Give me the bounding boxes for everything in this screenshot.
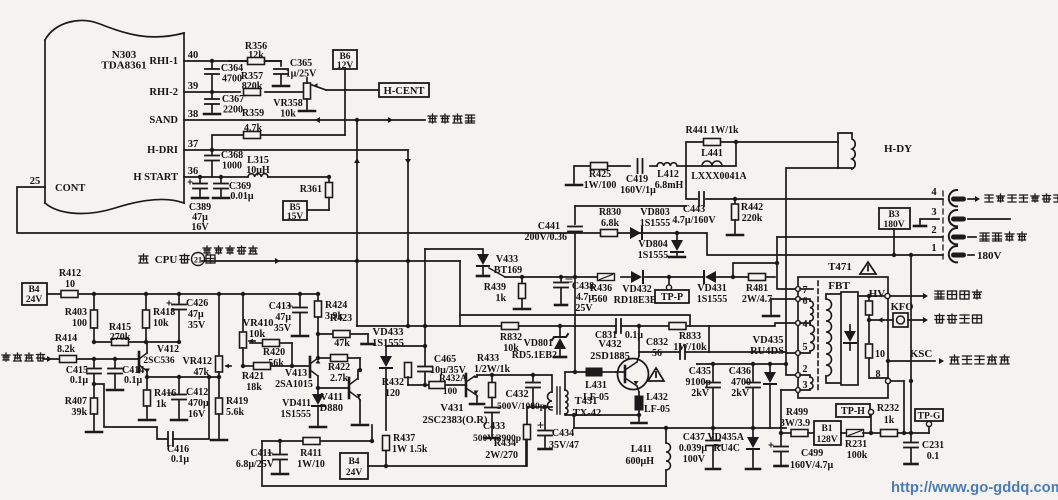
bead L432 LF-05 — [638, 392, 640, 396]
svg-text:0.039μ: 0.039μ — [679, 443, 708, 454]
svg-text:40: 40 — [188, 50, 199, 61]
wire L441 cell — [686, 142, 736, 166]
svg-text:VD435A: VD435A — [707, 432, 744, 443]
wire pin3 row — [781, 389, 796, 391]
transistor V411 D880 — [348, 378, 351, 398]
resistor R415 270k — [94, 341, 110, 343]
node C364 top — [210, 59, 214, 63]
svg-text:8: 8 — [876, 369, 881, 380]
svg-text:R442: R442 — [741, 202, 763, 213]
resistor R481 2W/4.7 — [749, 274, 766, 281]
supply B5 15V — [305, 209, 329, 211]
label horiz retrace pulse — [203, 246, 211, 254]
svg-text:100k: 100k — [847, 450, 868, 461]
svg-text:1000: 1000 — [222, 161, 242, 172]
svg-text:VD431: VD431 — [697, 283, 726, 294]
svg-text:B1: B1 — [821, 424, 832, 434]
testpoint TP-H — [836, 404, 870, 417]
node R439 — [520, 275, 524, 279]
svg-text:2SA1015: 2SA1015 — [275, 379, 313, 390]
resistor R418 10k — [145, 294, 147, 310]
node VD804 — [675, 231, 679, 235]
svg-text:H-DY: H-DY — [884, 143, 912, 155]
svg-text:10k: 10k — [249, 329, 266, 340]
svg-text:RD5.1EB2: RD5.1EB2 — [512, 350, 557, 361]
transistor V412 2SC536 — [138, 352, 141, 372]
wire sand descender — [356, 120, 358, 326]
node vr410 — [241, 292, 245, 296]
svg-text:CONT: CONT — [55, 183, 85, 194]
svg-text:1/2W/1k: 1/2W/1k — [474, 364, 511, 375]
resistor R830 6.8k — [601, 230, 618, 237]
svg-text:10k: 10k — [280, 109, 296, 120]
wire pin8 out — [891, 380, 905, 382]
wire loop to pin4 — [709, 323, 796, 326]
svg-text:2kV: 2kV — [691, 388, 710, 399]
svg-text:1k: 1k — [156, 399, 167, 410]
transistor V432 2SD1885 — [618, 359, 649, 390]
svg-text:R833: R833 — [679, 331, 701, 342]
node r403 — [92, 292, 96, 296]
node VD431 R481 — [731, 275, 735, 279]
svg-text:R421: R421 — [242, 371, 264, 382]
label accel volt — [950, 355, 959, 364]
svg-text:2SC536: 2SC536 — [143, 356, 174, 366]
svg-text:3W/3.9: 3W/3.9 — [780, 418, 810, 429]
svg-text:R403: R403 — [65, 307, 87, 318]
svg-text:470μ: 470μ — [188, 398, 209, 409]
svg-text:37: 37 — [188, 139, 199, 150]
svg-text:R432A: R432A — [439, 374, 467, 384]
wire HV out — [858, 295, 885, 297]
resistor R434 2W/270 — [526, 407, 528, 424]
svg-text:4.7μ/160V: 4.7μ/160V — [672, 215, 716, 226]
svg-text:L411: L411 — [631, 444, 652, 455]
svg-text:100: 100 — [443, 387, 458, 397]
svg-text:12k: 12k — [248, 50, 264, 61]
svg-text:2: 2 — [803, 364, 808, 375]
svg-text:15V: 15V — [287, 212, 304, 222]
bead L431 LF-05 — [586, 368, 602, 376]
capacitor C436 4700 2kV — [752, 364, 754, 381]
diode VD433 1S1555 — [385, 346, 387, 356]
wire V412 emitter rail — [147, 376, 219, 378]
svg-text:820k: 820k — [242, 81, 263, 92]
svg-text:C499: C499 — [801, 448, 823, 459]
FBT internal diode — [844, 331, 856, 342]
svg-text:25V: 25V — [575, 303, 593, 314]
svg-text:4: 4 — [803, 319, 808, 330]
svg-text:V432: V432 — [598, 339, 621, 350]
svg-text:BT169: BT169 — [494, 265, 522, 276]
svg-text:160V/1μ: 160V/1μ — [620, 185, 656, 196]
svg-text:R359: R359 — [242, 108, 264, 119]
svg-text:C419: C419 — [626, 174, 648, 185]
svg-text:16V: 16V — [191, 222, 209, 233]
fusible resistor R231 100k — [841, 432, 847, 434]
svg-text:R231: R231 — [845, 439, 867, 450]
capacitor C832 56 — [679, 345, 681, 359]
capacitor C437 0.039u 100V — [712, 428, 714, 439]
svg-text:5.6k: 5.6k — [226, 407, 245, 418]
FBT secondary coil — [826, 299, 832, 376]
svg-text:R423: R423 — [330, 313, 352, 324]
arrow sand left — [315, 117, 320, 123]
potentiometer VR412 47k — [218, 294, 220, 356]
svg-text:KFO: KFO — [891, 302, 914, 313]
svg-text:1S1555: 1S1555 — [697, 294, 728, 305]
node C369 — [219, 175, 223, 179]
node lineB sand — [355, 259, 359, 263]
svg-text:4700: 4700 — [731, 377, 751, 388]
wire R411 row — [262, 440, 304, 442]
FBT focus divider — [868, 296, 870, 301]
svg-text:C432: C432 — [505, 389, 528, 400]
svg-text:8.2k: 8.2k — [57, 344, 76, 355]
svg-text:0.1μ: 0.1μ — [625, 330, 644, 341]
svg-text:R407: R407 — [65, 396, 87, 407]
svg-text:47μ: 47μ — [275, 312, 291, 323]
svg-text:LXXX0041A: LXXX0041A — [691, 171, 747, 182]
svg-text:560: 560 — [593, 294, 608, 305]
svg-text:LF-05: LF-05 — [644, 404, 670, 415]
svg-text:2: 2 — [931, 225, 936, 236]
node C441 B+ — [573, 275, 577, 279]
wire R414 row — [44, 358, 60, 360]
resistor R414 8.2k — [60, 356, 77, 363]
svg-text:0.1μ: 0.1μ — [171, 454, 190, 465]
svg-text:1W/100: 1W/100 — [584, 180, 617, 191]
wire pin2 link — [786, 364, 796, 375]
svg-text:C412: C412 — [186, 387, 208, 398]
resistor R422 2.7k — [331, 355, 348, 362]
svg-text:B4: B4 — [348, 457, 359, 467]
label anode HV — [935, 291, 944, 299]
svg-text:220k: 220k — [742, 213, 763, 224]
svg-text:1S1555: 1S1555 — [280, 409, 311, 420]
wire R481 to pin7 — [777, 237, 796, 289]
svg-text:C433: C433 — [483, 421, 505, 432]
wire 24V rail — [47, 293, 62, 295]
wire SAND pin38 — [184, 119, 425, 121]
svg-text:T471: T471 — [828, 261, 852, 273]
svg-text:16V: 16V — [188, 409, 206, 420]
svg-text:R439: R439 — [484, 282, 506, 293]
diode VD431 1S1555 — [705, 271, 716, 283]
box H-CENT — [379, 83, 429, 97]
FBT core dashed — [817, 281, 819, 392]
svg-text:R412: R412 — [59, 268, 81, 279]
potentiometer VR358 — [304, 83, 311, 99]
svg-text:C437: C437 — [683, 432, 705, 443]
svg-text:R422: R422 — [328, 362, 350, 373]
svg-text:3: 3 — [931, 207, 936, 218]
svg-text:R424: R424 — [325, 300, 347, 311]
resistor R407 39k — [91, 398, 98, 414]
wire V433 feed — [425, 249, 483, 254]
svg-text:C465: C465 — [434, 354, 456, 365]
svg-text:35V: 35V — [188, 320, 206, 331]
capacitor C231 0.1 — [910, 433, 912, 441]
svg-text:6.8k: 6.8k — [601, 218, 620, 229]
svg-text:V411: V411 — [320, 392, 343, 403]
svg-text:0.01μ: 0.01μ — [230, 191, 254, 202]
svg-text:1k: 1k — [884, 415, 895, 426]
FBT rectifier block — [841, 292, 858, 385]
wire V413 collector node — [318, 387, 349, 389]
svg-text:V413: V413 — [285, 368, 307, 379]
label field sawtooth — [2, 353, 10, 361]
node c413 — [298, 292, 302, 296]
svg-text:600μH: 600μH — [626, 456, 655, 467]
resistor R416 1k — [146, 377, 148, 390]
svg-text:D880: D880 — [320, 403, 343, 414]
svg-text:6.8μ/25V: 6.8μ/25V — [236, 459, 275, 470]
node TP-P — [667, 275, 671, 279]
svg-text:R414: R414 — [55, 333, 77, 344]
svg-text:56: 56 — [652, 348, 662, 359]
resistor R432A 100 — [429, 382, 445, 389]
node lineB hdri — [406, 259, 410, 263]
label to CPU pin21 — [139, 254, 148, 263]
svg-text:1k: 1k — [495, 293, 506, 304]
wire C416 path — [94, 384, 168, 439]
svg-text:36: 36 — [188, 166, 199, 177]
svg-text:http://www.go-gddq.com: http://www.go-gddq.com — [891, 480, 1058, 496]
thyristor V433 BT169 — [477, 254, 489, 265]
capacitor C365 — [280, 61, 282, 66]
svg-text:200V/0.36: 200V/0.36 — [525, 232, 568, 243]
svg-text:H START: H START — [133, 172, 178, 183]
node sand — [355, 118, 359, 122]
svg-text:10k: 10k — [153, 318, 169, 329]
svg-text:RHI-1: RHI-1 — [149, 56, 178, 67]
svg-text:100: 100 — [72, 318, 87, 329]
svg-text:R361: R361 — [300, 184, 322, 195]
testpoint TP-G — [915, 409, 943, 421]
node C389 — [198, 175, 202, 179]
capacitor C443 — [698, 192, 700, 206]
diode VD435 RU4DS — [769, 364, 771, 372]
wire RHI-2 pin39 — [184, 91, 240, 93]
warning triangle V432 — [648, 368, 664, 381]
wire c441 feed — [575, 205, 686, 207]
svg-text:VD411: VD411 — [282, 398, 311, 409]
svg-text:35V: 35V — [274, 323, 292, 334]
svg-text:CPU: CPU — [155, 254, 178, 266]
resistor R419 5.6k — [218, 377, 220, 398]
resistor R442 220k — [734, 199, 736, 204]
capacitor C499 160V/4.7u — [780, 433, 782, 445]
svg-text:2W/4.7: 2W/4.7 — [742, 294, 772, 305]
wire primary bottom — [527, 406, 552, 408]
svg-text:C367: C367 — [222, 94, 244, 105]
resistor R359 4.7k — [212, 135, 345, 150]
label CRT ground — [968, 198, 976, 200]
supply B4 24V bottom — [340, 453, 368, 479]
svg-text:TDA8361: TDA8361 — [101, 60, 146, 72]
svg-text:V431: V431 — [440, 403, 463, 414]
svg-text:R499: R499 — [786, 407, 808, 418]
diode VD803 1S1555 — [630, 227, 641, 239]
wire H START pin36 — [184, 176, 248, 178]
svg-text:1S1555: 1S1555 — [372, 338, 404, 349]
transistor V431 2SC2383 — [465, 374, 468, 396]
supply B6 12V — [333, 50, 357, 69]
svg-text:TP-G: TP-G — [918, 412, 941, 422]
ground R425 — [573, 166, 575, 183]
svg-text:R437: R437 — [393, 433, 415, 444]
capacitor C438 — [560, 277, 562, 281]
wire KFO tap — [869, 319, 893, 321]
svg-text:2W/270: 2W/270 — [485, 450, 518, 461]
svg-text:1S1555: 1S1555 — [638, 250, 669, 261]
ground pin3 — [920, 219, 939, 224]
svg-text:R232: R232 — [877, 403, 899, 414]
svg-text:VD801: VD801 — [524, 338, 553, 349]
wire R421 row — [243, 365, 252, 367]
svg-text:7: 7 — [803, 285, 808, 296]
wire H-DY return — [786, 168, 838, 364]
svg-text:6.8mH: 6.8mH — [655, 180, 684, 191]
svg-text:10μH: 10μH — [246, 165, 270, 176]
resistor R437 1W 1.5k — [383, 436, 390, 451]
ground FBT pin6 — [771, 299, 796, 314]
svg-text:128V: 128V — [816, 435, 837, 445]
svg-text:2SC2383(O.R): 2SC2383(O.R) — [422, 415, 488, 426]
node V433-C465 rail — [423, 324, 427, 328]
node c426 — [177, 292, 181, 296]
wire H-CENT — [326, 89, 379, 91]
FBT primary coils — [810, 301, 813, 321]
capacitor C435 9100p 2kV — [712, 364, 714, 381]
svg-text:1: 1 — [931, 243, 936, 254]
wire B+ line — [505, 276, 597, 278]
capacitor C441 200V/0.36 — [574, 206, 576, 224]
wire H-DRI pin37 — [184, 149, 408, 151]
wire line B — [202, 260, 460, 262]
svg-text:9100p: 9100p — [685, 377, 711, 388]
svg-text:B3: B3 — [888, 210, 899, 220]
resistor R421 18k — [254, 363, 271, 370]
svg-text:C365: C365 — [290, 58, 312, 69]
wire KSC line — [888, 360, 935, 362]
wire R232 row — [871, 432, 881, 434]
svg-text:2SD1885: 2SD1885 — [590, 351, 630, 362]
svg-text:HV: HV — [869, 288, 886, 300]
node R442 — [733, 197, 737, 201]
capacitor C414 — [114, 359, 116, 367]
transformer T431 TX-42 — [551, 375, 553, 392]
node r414 r403 — [92, 357, 96, 361]
transformer FBT box — [798, 277, 888, 398]
svg-text:10: 10 — [65, 279, 75, 290]
svg-text:5: 5 — [803, 342, 808, 353]
svg-text:RU4C: RU4C — [713, 443, 740, 454]
node C364 bottom — [210, 90, 214, 94]
resistor R411 1W/10 — [303, 438, 320, 445]
svg-text:47k: 47k — [334, 338, 350, 349]
svg-text:VD432: VD432 — [622, 284, 651, 295]
svg-text:2kV: 2kV — [731, 388, 750, 399]
capacitor C416 0.1u — [167, 432, 169, 446]
svg-text:TP-P: TP-P — [661, 292, 683, 303]
node VD801 — [558, 324, 562, 328]
capacitor C432 500V/1000p — [532, 375, 534, 381]
wire HV top rail 364 — [697, 363, 786, 365]
svg-text:47μ: 47μ — [188, 309, 204, 320]
svg-text:24V: 24V — [346, 468, 363, 478]
node hdri-R432 — [406, 324, 410, 328]
svg-text:R434: R434 — [494, 438, 516, 449]
coil H-DY — [838, 133, 855, 169]
node c414 — [113, 357, 117, 361]
svg-text:100V: 100V — [683, 454, 706, 465]
capacitor C367 — [211, 92, 213, 98]
resistor R357 — [244, 89, 261, 96]
node HDRI C368 — [210, 148, 214, 152]
svg-text:B4: B4 — [28, 285, 39, 295]
resistor R432 120 — [405, 363, 412, 378]
svg-text:38: 38 — [188, 109, 199, 120]
resistor R832 10k — [502, 323, 519, 330]
svg-text:R436: R436 — [590, 283, 612, 294]
node L315 out — [327, 175, 331, 179]
node L441 right — [734, 140, 738, 144]
IC U1 N303 TDA8361 outline — [44, 40, 46, 203]
inductor L441 — [702, 161, 722, 166]
svg-text:R420: R420 — [263, 347, 285, 358]
svg-text:SAND: SAND — [149, 115, 178, 126]
svg-text:R441 1W/1k: R441 1W/1k — [685, 125, 739, 136]
label focus volt — [935, 314, 944, 323]
svg-text:2200: 2200 — [223, 105, 243, 116]
svg-text:H-DRI: H-DRI — [147, 145, 178, 156]
svg-text:39k: 39k — [71, 407, 87, 418]
svg-text:R830: R830 — [599, 207, 621, 218]
inductor L315 — [248, 174, 268, 177]
dashed connector line — [942, 191, 944, 262]
capacitor C413 47u 35V — [299, 294, 301, 306]
ground V432 emitter — [638, 415, 640, 421]
svg-text:160V/4.7μ: 160V/4.7μ — [790, 460, 834, 471]
capacitor C465 10u/35V — [418, 366, 432, 368]
svg-text:R425: R425 — [589, 169, 611, 180]
capacitor C415 — [93, 359, 95, 367]
resistor R833 1W/10k — [669, 323, 686, 330]
transistor V413 2SA1015 — [309, 357, 312, 377]
wire R422 row — [318, 357, 330, 359]
focus pot KFO — [893, 313, 908, 327]
svg-text:10: 10 — [875, 349, 885, 360]
resistor R412 10 — [61, 291, 78, 298]
svg-text:VD435: VD435 — [753, 335, 784, 346]
svg-text:180V: 180V — [977, 250, 1002, 262]
resistor R439 1k — [521, 277, 523, 283]
resistor R361 — [328, 177, 330, 182]
inductor L411 600uH — [666, 443, 671, 470]
inductor L412 — [657, 163, 677, 166]
warning triangle T471 — [860, 262, 876, 274]
svg-text:KSC: KSC — [910, 348, 933, 360]
svg-text:120: 120 — [385, 388, 400, 399]
wire base line — [408, 384, 430, 386]
wire RHI-1 pin40 — [184, 60, 281, 62]
supply B3 180V — [879, 208, 910, 229]
svg-text:R433: R433 — [477, 353, 499, 364]
wire rail L2 — [357, 325, 616, 327]
wire bottom rail 428 — [574, 427, 786, 429]
